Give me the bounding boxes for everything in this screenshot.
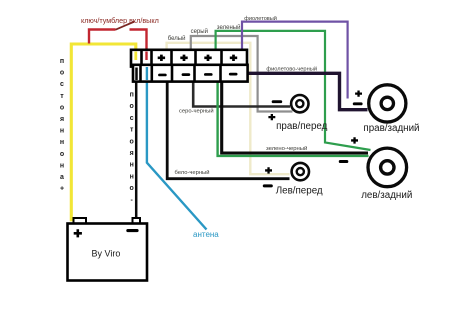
svg-text:я: я	[130, 150, 134, 157]
svg-text:п: п	[130, 92, 134, 99]
wire violet-black (фиолетово-черный) from block -4 to right-rear speaker -	[238, 73, 368, 109]
svg-text:о: о	[60, 104, 64, 111]
svg-text:By Viro: By Viro	[92, 248, 121, 258]
plus mark block cell 3	[158, 55, 165, 61]
minus mark right-rear	[353, 102, 363, 105]
battery plus mark	[74, 229, 82, 237]
plus mark right-front	[268, 114, 275, 120]
vertical text постоянно на+	[60, 58, 64, 193]
svg-text:п: п	[60, 58, 64, 65]
plus mark block cell 5	[204, 55, 211, 61]
cyan wire end inside block bottom cell 2	[146, 67, 148, 80]
svg-text:с: с	[130, 115, 134, 122]
minus mark block cell 6	[229, 73, 238, 76]
svg-text:н: н	[130, 162, 134, 169]
wire green-black (зелено-черный) black part, to left-rear speaker -	[222, 82, 368, 153]
switch blade (тумблер вкл/выкл)	[116, 22, 135, 30]
svg-text:о: о	[130, 138, 134, 145]
speaker left-rear (лев/задний)	[368, 148, 407, 187]
svg-text:н: н	[60, 139, 64, 146]
plus mark right-rear	[355, 91, 362, 97]
svg-text:Лев/перед: Лев/перед	[276, 186, 323, 197]
svg-text:антена: антена	[193, 230, 219, 239]
svg-text:белый: белый	[168, 35, 186, 42]
svg-text:зеленый: зеленый	[217, 24, 241, 31]
svg-text:прав/перед: прав/перед	[276, 121, 328, 132]
wire antenna (антена) cyan	[147, 67, 207, 230]
wire green-black (зелено-черный) green part	[218, 81, 369, 156]
svg-text:зелено-черный: зелено-черный	[266, 145, 307, 152]
yellow wire end inside block cell 1	[134, 52, 137, 61]
wire yellow постоянно на+ from battery + to block	[71, 44, 136, 220]
plus mark block cell 4	[180, 55, 187, 61]
black wire end inside block bottom cell 1	[135, 68, 138, 81]
wire red switched feed (ключ/тумблер)	[89, 30, 147, 61]
svg-text:н: н	[60, 128, 64, 135]
wire gray-black (серо-черный) from block -2 to right-front speaker -	[193, 76, 290, 107]
red wire end inside block cell 2	[145, 52, 147, 61]
svg-text:а: а	[60, 174, 64, 181]
svg-text:я: я	[60, 116, 64, 123]
speaker right-front (прав/перед)	[291, 95, 308, 112]
wire white (белый) from block +1 to left-front speaker +	[167, 43, 290, 174]
svg-text:прав/задний: прав/задний	[363, 123, 419, 134]
minus mark block cell 5	[204, 73, 213, 76]
wire green (зеленый) from block +3 to left-rear speaker +	[216, 31, 371, 150]
speaker left-front (Лев/перед)	[292, 163, 309, 180]
vertical text постоянно-	[130, 92, 134, 204]
wire violet (фиолетовый) from block +4 to right-rear speaker +	[242, 22, 348, 99]
svg-text:о: о	[60, 70, 64, 77]
svg-text:т: т	[60, 93, 64, 100]
minus mark block cell 4	[182, 73, 191, 76]
svg-text:+: +	[60, 186, 64, 193]
svg-text:о: о	[60, 151, 64, 158]
svg-text:серо-черный: серо-черный	[179, 107, 214, 114]
battery By Viro	[68, 218, 148, 281]
svg-text:бело-черный: бело-черный	[175, 169, 210, 176]
plus mark left-front	[265, 167, 272, 173]
minus mark right-front	[272, 100, 283, 103]
wire black постоянно- from block to battery -	[135, 68, 138, 219]
svg-text:серый: серый	[191, 28, 208, 35]
svg-text:о: о	[130, 103, 134, 110]
connector block top row (plus terminals)	[131, 50, 247, 67]
plus mark left-rear	[351, 137, 358, 143]
minus mark block cell 3	[158, 74, 167, 77]
svg-text:лев/задний: лев/задний	[361, 190, 412, 201]
minus mark left-front	[263, 184, 273, 187]
wire gray (серый) from block +2 to right-front speaker +	[191, 36, 293, 112]
speaker right-rear (прав/задний)	[369, 85, 406, 122]
svg-text:с: с	[60, 81, 64, 88]
svg-text:фиолетовый: фиолетовый	[244, 15, 277, 22]
plus mark block cell 6	[230, 55, 237, 61]
battery minus mark	[126, 229, 138, 232]
svg-text:фиолетово-черный: фиолетово-черный	[266, 65, 317, 72]
svg-text:т: т	[130, 127, 134, 134]
minus mark left-rear	[339, 160, 349, 163]
svg-text:н: н	[60, 162, 64, 169]
svg-text:н: н	[130, 173, 134, 180]
svg-text:о: о	[130, 185, 134, 192]
svg-text:ключ/тумблер вкл/выкл: ключ/тумблер вкл/выкл	[81, 16, 159, 25]
wire white-black (бело-черный) from block -1 to left-front speaker -	[167, 81, 289, 179]
connector block bottom row (minus terminals)	[133, 65, 248, 82]
